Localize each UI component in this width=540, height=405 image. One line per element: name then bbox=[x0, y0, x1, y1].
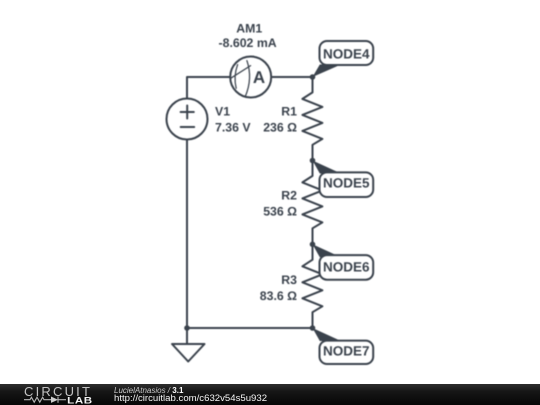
svg-text:NODE7: NODE7 bbox=[323, 343, 370, 358]
ammeter AM1 bbox=[230, 57, 271, 98]
node NODE4 label bbox=[320, 41, 374, 65]
node NODE5 label bbox=[320, 172, 374, 197]
label R2 value bbox=[263, 189, 297, 219]
svg-text:536 Ω: 536 Ω bbox=[263, 205, 297, 219]
node NODE6 label bbox=[320, 255, 374, 280]
label AM1 value bbox=[219, 22, 277, 50]
junction node6 dot bbox=[310, 242, 316, 248]
svg-text:7.36 V: 7.36 V bbox=[215, 121, 251, 135]
ground bbox=[172, 344, 205, 362]
junction node5 dot bbox=[310, 158, 316, 164]
wire ammeter right to node4 bbox=[271, 76, 313, 78]
svg-text:R3: R3 bbox=[281, 273, 297, 287]
svg-text:LAB: LAB bbox=[67, 397, 92, 405]
voltage source V1 bbox=[167, 99, 208, 140]
svg-text:http://circuitlab.com/c632v54s: http://circuitlab.com/c632v54s5u932 bbox=[114, 393, 267, 404]
svg-text:R1: R1 bbox=[281, 105, 297, 119]
junction node7 dot bbox=[310, 325, 316, 331]
junction node4 dot bbox=[310, 74, 316, 80]
svg-text:AM1: AM1 bbox=[236, 22, 262, 36]
label R3 value bbox=[260, 273, 297, 303]
node NODE7 label bbox=[320, 341, 374, 364]
node NODE7 flag bbox=[313, 328, 342, 341]
svg-text:NODE5: NODE5 bbox=[323, 175, 370, 190]
svg-text:A: A bbox=[253, 68, 265, 87]
resistor R2 bbox=[302, 161, 322, 245]
svg-text:-8.602 mA: -8.602 mA bbox=[219, 36, 277, 50]
node NODE6 flag bbox=[313, 244, 342, 257]
wire top-left: V1 top to ammeter bbox=[187, 77, 230, 99]
footer bar bbox=[0, 384, 540, 405]
ground lead wire bbox=[186, 328, 188, 344]
junction ground dot bbox=[184, 325, 190, 331]
svg-text:V1: V1 bbox=[215, 105, 230, 119]
wire bottom horizontal bbox=[187, 327, 313, 329]
svg-text:236 Ω: 236 Ω bbox=[263, 121, 297, 135]
node NODE5 flag bbox=[313, 161, 342, 174]
logo wire glyph with resistor and diode bbox=[24, 397, 66, 403]
resistor R1 bbox=[302, 77, 322, 161]
wire V1 bottom down left side bbox=[186, 140, 188, 329]
ammeter glyph bbox=[231, 61, 251, 97]
node NODE4 flag bbox=[313, 65, 342, 78]
svg-text:83.6 Ω: 83.6 Ω bbox=[260, 289, 297, 303]
resistor R3 bbox=[302, 244, 322, 328]
label R1 value bbox=[263, 105, 297, 135]
svg-text:R2: R2 bbox=[281, 189, 297, 203]
svg-text:NODE6: NODE6 bbox=[323, 260, 370, 275]
svg-text:NODE4: NODE4 bbox=[323, 46, 370, 61]
label V1 value bbox=[215, 105, 251, 135]
